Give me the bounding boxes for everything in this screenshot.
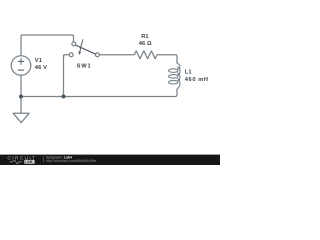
SW1 actuator arrow (80, 39, 83, 52)
svg-text:46 V: 46 V (35, 65, 47, 71)
V1 minus sign (18, 69, 24, 71)
SW1 lower-left contact (69, 53, 73, 57)
svg-text:SW1: SW1 (77, 63, 92, 69)
ground (13, 113, 29, 122)
svg-text:R1: R1 (141, 34, 148, 40)
SW1 right common contact (96, 53, 100, 57)
SW1 blade (76, 45, 96, 54)
svg-text:460 mH: 460 mH (185, 77, 209, 83)
footer logo LAB (24, 160, 34, 164)
SW1 top contact (72, 42, 76, 46)
svg-text:LAB: LAB (25, 160, 33, 164)
svg-text:L1: L1 (185, 70, 192, 76)
wire bottom rail (21, 89, 177, 97)
junction dot node B (SW1 throw / bottom rail) (62, 95, 66, 99)
wire ground stub (20, 97, 22, 113)
voltage source V1 (11, 56, 31, 76)
wire R1 to corner down to L1 (157, 55, 177, 64)
wire V1 bottom to ground rail (20, 75, 22, 96)
svg-text:V1: V1 (35, 58, 42, 64)
svg-text:46 Ω: 46 Ω (139, 41, 152, 47)
switch SW1 (69, 42, 99, 57)
footer bar (0, 155, 220, 165)
wire SW1 common to R1 (99, 54, 134, 56)
wire top rail from V1 up and right to SW1 (21, 35, 74, 56)
footer logo wave (10, 160, 23, 163)
svg-text:http://circuitlab.com/668c45fb: http://circuitlab.com/668c45fb39be (46, 159, 96, 163)
junction dot node A (V1- / ground) (19, 95, 23, 99)
inductor L1 (169, 63, 180, 88)
V1 plus sign (18, 58, 24, 70)
wire SW1 lower throw to bottom rail (64, 55, 70, 97)
footer divider (43, 156, 45, 162)
resistor R1 (134, 51, 157, 59)
